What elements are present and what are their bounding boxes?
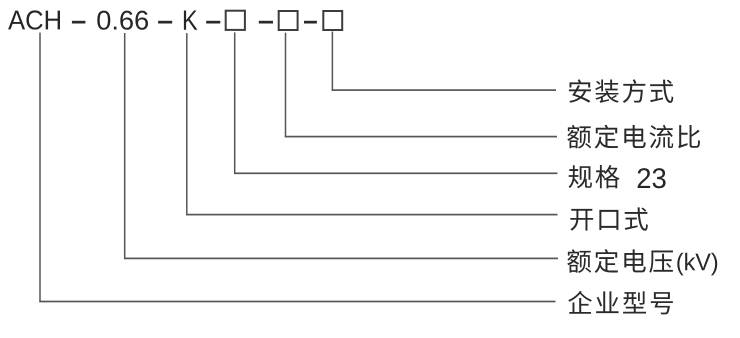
leader line to 开口式 <box>186 214 557 216</box>
leader drop from box 3 <box>332 32 334 91</box>
dash separator 3 <box>206 21 220 24</box>
placeholder box 2 (current ratio) <box>279 11 298 30</box>
dash separator 5 <box>304 21 317 24</box>
leader line to 安装方式 <box>332 89 556 91</box>
leader drop from ACH <box>39 33 41 303</box>
leader line to 企业型号 <box>39 301 555 303</box>
label 安装方式 (mounting style) <box>569 79 673 103</box>
letter K (open type code) <box>184 11 197 30</box>
dash separator 1 <box>72 21 86 24</box>
label 企业型号 (enterprise model) <box>568 291 673 315</box>
label 规格 (specification) <box>569 165 620 188</box>
dash separator 4 <box>259 21 273 24</box>
leader drop from 0.66 <box>124 33 126 259</box>
model prefix text ACH <box>8 10 60 29</box>
leader line to 额定电流比 <box>285 136 557 138</box>
label 开口式 (open type) <box>570 207 648 230</box>
placeholder box 1 (spec) <box>226 11 245 30</box>
leader drop from box 2 <box>285 33 287 138</box>
voltage text 0.66 <box>97 11 148 30</box>
leader drop from box 1 <box>234 32 236 174</box>
dash separator 2 <box>158 21 172 24</box>
label 额定电压 (rated voltage) <box>567 249 673 273</box>
leader line to 规格23 <box>234 172 558 174</box>
leader drop from K <box>186 33 188 215</box>
label unit (kV) <box>677 253 717 276</box>
label 额定电流比 (rated current ratio) <box>567 125 700 149</box>
leader line to 额定电压 <box>124 258 558 260</box>
placeholder box 3 (mounting) <box>323 11 342 30</box>
label value 23 <box>638 168 666 188</box>
